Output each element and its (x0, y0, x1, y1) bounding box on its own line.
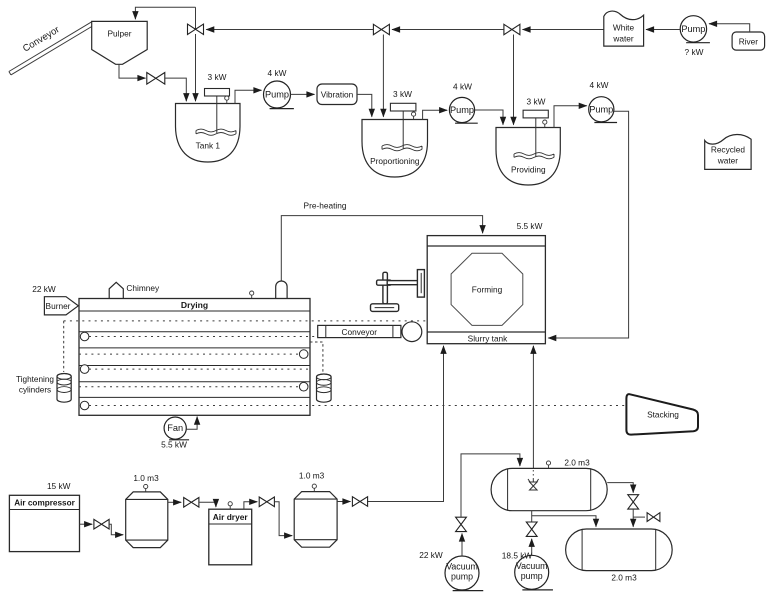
valve V8 (352, 497, 367, 507)
wire: header seg2 (392, 29, 504, 31)
web drop right (dashed) (310, 342, 323, 373)
wire: compressor out (80, 523, 93, 525)
recycled water store (705, 135, 751, 170)
tank T2 (Proportioning) (362, 89, 428, 177)
svg-text:Providing: Providing (511, 165, 546, 175)
vacuum pump VP2 (18.5 kW) (502, 539, 553, 590)
svg-text:Air compressor: Air compressor (14, 499, 75, 508)
svg-text:cylinders: cylinders (19, 386, 51, 395)
svg-text:Proportioning: Proportioning (370, 156, 420, 166)
web path (dotted) row1 (64, 320, 428, 322)
wire: air dryer out (244, 502, 257, 509)
vacuum pump VP1 (22 kW) (419, 534, 483, 591)
web path row5 (79, 386, 299, 388)
svg-text:Slurry tank: Slurry tank (468, 334, 509, 344)
svg-text:1.0 m3: 1.0 m3 (299, 471, 325, 481)
storage tank B2 (2.0 m3) (566, 529, 673, 583)
wire: river to P4 (709, 24, 750, 32)
wire: T3 to P3 (554, 106, 587, 128)
chimney (109, 282, 160, 298)
wire: P2 to T3 (475, 110, 503, 125)
svg-text:4 kW: 4 kW (268, 68, 287, 78)
svg-text:Air dryer: Air dryer (213, 512, 249, 522)
wire: T1 to P1 (235, 90, 262, 103)
svg-text:White: White (613, 23, 635, 33)
tank T3 (Providing) (496, 97, 560, 186)
fan F1 (161, 417, 197, 450)
wire: A2 out (337, 501, 350, 503)
svg-text:4 kW: 4 kW (590, 80, 609, 90)
vacuum tank B1 (2.0 m3) (491, 458, 607, 511)
svg-text:Pump: Pump (681, 24, 705, 34)
svg-text:Burner: Burner (46, 301, 71, 311)
svg-text:Stacking: Stacking (647, 410, 679, 420)
web path row4 (89, 368, 310, 370)
svg-text:Pump: Pump (450, 105, 474, 115)
press jack (371, 270, 425, 312)
svg-text:Tank 1: Tank 1 (196, 141, 221, 151)
svg-text:? kW: ? kW (685, 47, 704, 57)
svg-text:2.0 m3: 2.0 m3 (564, 458, 590, 468)
pump P1 (264, 68, 294, 109)
svg-text:Pulper: Pulper (108, 29, 132, 39)
svg-text:3 kW: 3 kW (393, 89, 412, 99)
svg-text:Fan: Fan (167, 423, 183, 433)
forming machine (427, 221, 545, 344)
wire: vibration to T2 (357, 94, 372, 116)
dryer roof vent (250, 291, 254, 299)
wire: A1 out (168, 501, 181, 503)
valve V7 (259, 497, 292, 536)
wire: pulper outlet (119, 64, 146, 78)
wire: T2 to P2 (423, 110, 448, 119)
svg-text:Chimney: Chimney (126, 283, 160, 293)
web path row6 to stacking (89, 405, 626, 407)
valve V1 (188, 24, 204, 101)
steam dome (276, 281, 287, 299)
pump P2 (449, 82, 477, 124)
air compressor (9, 481, 79, 552)
svg-text:Drying: Drying (181, 300, 208, 310)
wire: pre-heating line (281, 216, 482, 281)
svg-text:2.0 m3: 2.0 m3 (611, 573, 637, 583)
wire: header seg3 (206, 29, 373, 31)
svg-text:River: River (739, 36, 759, 46)
wire: air line riser to slurry tank (368, 346, 444, 502)
drying section (79, 299, 310, 416)
svg-text:15 kW: 15 kW (47, 481, 71, 491)
svg-text:1.0 m3: 1.0 m3 (133, 473, 159, 483)
svg-text:22 kW: 22 kW (32, 284, 56, 294)
air dryer (209, 502, 252, 565)
svg-text:3 kW: 3 kW (527, 97, 546, 107)
web path row2 (89, 336, 318, 338)
pulper (92, 21, 148, 64)
air receiver A2 (1.0 m3) (294, 471, 337, 548)
valve V4 (373, 24, 389, 34)
wire: P4 to white water (646, 29, 680, 31)
svg-text:Vacuum: Vacuum (446, 562, 478, 572)
tightening cylinders left (16, 374, 71, 403)
wire: V4 drop to proportioning tank (382, 35, 384, 117)
valve V12 (633, 513, 660, 522)
belt conveyor (318, 322, 422, 342)
svg-text:Pump: Pump (589, 104, 613, 114)
svg-text:Conveyor: Conveyor (342, 327, 378, 337)
tightening cylinders right (317, 374, 332, 402)
wire: B1 out (607, 483, 633, 493)
pump P3 (589, 80, 617, 123)
svg-text:water: water (717, 156, 739, 166)
svg-text:Pre-heating: Pre-heating (304, 201, 347, 211)
dryer rollers (80, 332, 308, 410)
valve V3 (504, 24, 520, 34)
svg-text:Tightening: Tightening (16, 375, 54, 384)
river source (732, 32, 765, 50)
svg-text:Recycled: Recycled (711, 145, 746, 155)
svg-text:3 kW: 3 kW (208, 72, 227, 82)
wire: vacuum tank riser to slurry tank (532, 346, 534, 469)
wire: header down into pulper (135, 7, 195, 19)
valve V11 (628, 495, 639, 527)
svg-text:5.5 kW: 5.5 kW (161, 440, 187, 450)
valve V9 (456, 454, 520, 532)
svg-text:4 kW: 4 kW (453, 82, 472, 92)
tank T1 (Tank 1) (176, 72, 241, 162)
svg-text:18.5 kW: 18.5 kW (502, 551, 533, 561)
svg-text:pump: pump (521, 571, 543, 581)
valve V2 (147, 73, 187, 102)
web path row3 (79, 353, 299, 355)
wire: white water header seg1 (523, 29, 604, 31)
wire: valve V1 riser (195, 7, 197, 29)
air receiver A1 (1.0 m3) (126, 473, 168, 548)
svg-text:Pump: Pump (265, 90, 289, 100)
svg-text:pump: pump (451, 572, 473, 582)
svg-text:Forming: Forming (472, 284, 503, 294)
svg-text:water: water (612, 34, 634, 44)
stacking (626, 394, 698, 434)
svg-text:Vacuum: Vacuum (516, 561, 548, 571)
wire: VP2 branch to B2 (532, 516, 596, 527)
valve V6 (184, 498, 216, 508)
svg-text:Vibration: Vibration (321, 90, 354, 100)
wire: V3 drop to providing tank (513, 35, 515, 125)
wire: P3 to slurry tank (548, 111, 628, 338)
incline conveyor (9, 21, 94, 75)
wire: P1 to vibration (291, 93, 315, 95)
burner (32, 284, 78, 315)
web drop left (dashed) (63, 321, 65, 372)
vibration screen (317, 84, 357, 105)
pump P4 (680, 16, 710, 57)
svg-text:22 kW: 22 kW (419, 550, 443, 560)
white water store (604, 11, 644, 46)
valve V10 (526, 511, 537, 537)
valve V5 (94, 519, 123, 534)
svg-text:5.5 kW: 5.5 kW (517, 221, 543, 231)
